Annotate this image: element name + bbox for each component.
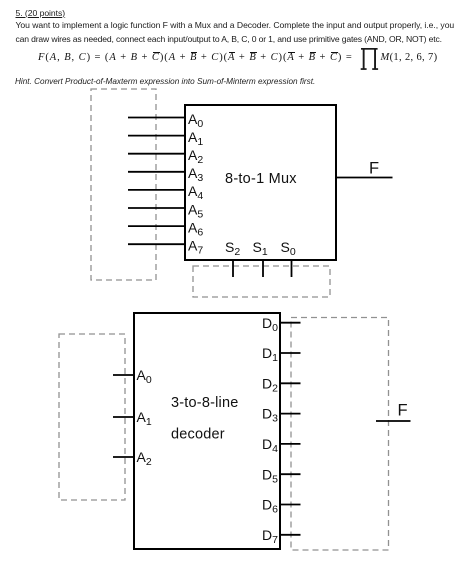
svg-text:F: F: [398, 401, 408, 419]
svg-text:decoder: decoder: [171, 426, 225, 442]
svg-text:3-to-8-line: 3-to-8-line: [171, 395, 238, 411]
svg-text:8-to-1 Mux: 8-to-1 Mux: [225, 171, 297, 187]
svg-text:F: F: [369, 160, 379, 178]
